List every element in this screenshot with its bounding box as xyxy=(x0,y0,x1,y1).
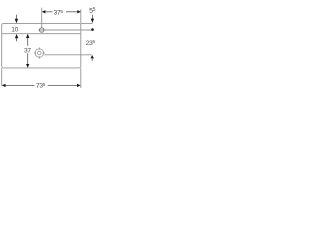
dimension 10 left xyxy=(15,15,17,42)
extension line right edge up xyxy=(80,9,82,23)
dimension 73.5 bottom xyxy=(3,84,78,86)
tap hole symbol xyxy=(40,28,44,32)
tap hole centre line xyxy=(38,29,91,31)
dot on tap line xyxy=(91,28,94,31)
arrow up to drain line xyxy=(91,55,94,58)
drain centre line xyxy=(44,54,91,56)
extension line right down xyxy=(80,68,82,88)
svg-text:10: 10 xyxy=(11,26,18,33)
svg-text:37: 37 xyxy=(24,47,31,54)
extension line left down xyxy=(1,68,3,86)
washbasin outer outline (top view) xyxy=(2,23,81,68)
extension line from tap hole up xyxy=(41,8,43,28)
back edge extension line to right xyxy=(81,22,93,24)
dimension 37.5 top xyxy=(43,11,79,13)
drain symbol xyxy=(34,47,45,58)
dimension 37 left-middle xyxy=(27,38,29,65)
back ledge inner line xyxy=(2,33,81,35)
